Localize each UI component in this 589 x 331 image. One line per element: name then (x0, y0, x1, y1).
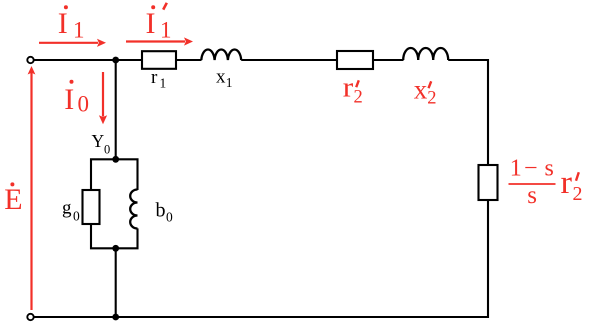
svg-text:I: I (146, 7, 156, 40)
label I1' (red) (146, 3, 172, 43)
svg-text:b: b (156, 199, 166, 221)
wire parallel-branch top rail (91, 159, 138, 190)
svg-text:s: s (527, 182, 537, 209)
svg-text:0: 0 (166, 210, 173, 225)
label I1 dot (red) (58, 5, 85, 42)
svg-text:0: 0 (104, 142, 110, 156)
susceptance b0 coil (130, 190, 137, 229)
node bottom of parallel branch (112, 245, 119, 252)
resistor r1 (142, 51, 176, 69)
label r2' (red) (343, 72, 363, 108)
svg-text:0: 0 (78, 92, 90, 117)
label b0 (156, 199, 174, 224)
wire parallel-branch bottom rail (91, 224, 138, 248)
wire right side below resistor to bottom-right corner (34, 200, 488, 317)
voltage arrow E (red, pointing up) (28, 66, 36, 310)
label I0 (red) (64, 80, 89, 117)
label g0 (62, 198, 80, 224)
current arrow I1' (red) (126, 37, 193, 45)
svg-text:E: E (4, 183, 22, 216)
svg-text:2: 2 (427, 89, 436, 109)
svg-text:I: I (58, 7, 68, 40)
wire x1 to r2' (241, 59, 337, 61)
wire top: terminal to r1 (34, 59, 142, 61)
terminal T2 bottom-left (27, 314, 33, 320)
label E dot (red) (4, 182, 22, 216)
current arrow I0 (red) (99, 72, 107, 124)
wire middle branch vertical (bottom) (115, 248, 117, 317)
svg-text:x: x (216, 67, 226, 88)
svg-text:1: 1 (226, 75, 233, 90)
svg-text:r: r (151, 67, 158, 88)
label x2' (red) (414, 74, 437, 108)
wire r2' to x2' (373, 59, 404, 61)
inductor x1 (201, 49, 241, 60)
svg-text:s: s (545, 156, 554, 182)
terminal T1 top-left (27, 57, 33, 63)
label (1-s)/s r2' (red) (509, 156, 583, 210)
resistor r2' (337, 51, 373, 69)
inductor x2' (403, 48, 448, 60)
wire middle branch vertical (top) (115, 60, 117, 159)
label Y0 (92, 131, 111, 156)
svg-text:x: x (414, 74, 428, 104)
svg-text:2: 2 (573, 183, 583, 205)
svg-text:g: g (62, 198, 72, 219)
wire x2' to top-right corner and down (448, 60, 488, 165)
svg-text:2: 2 (354, 88, 363, 108)
svg-text:1: 1 (160, 76, 167, 91)
conductance g0 box (83, 190, 100, 224)
label r1 (151, 67, 166, 91)
node junction top (middle branch tap) (112, 57, 119, 64)
wire r1 to x1 (176, 59, 202, 61)
current arrow I1 (red) (39, 39, 106, 47)
svg-text:1: 1 (160, 18, 172, 43)
resistor (1-s)/s r2' (479, 165, 498, 200)
svg-text:r: r (561, 165, 573, 201)
svg-text:1: 1 (510, 156, 522, 182)
svg-text:Y: Y (92, 131, 105, 151)
svg-text:1: 1 (73, 18, 85, 43)
svg-text:0: 0 (73, 209, 80, 224)
svg-text:I: I (64, 83, 74, 116)
label x1 (216, 67, 233, 91)
svg-text:−: − (524, 156, 538, 182)
node Y0 junction (112, 156, 119, 163)
node junction bottom wire (112, 314, 119, 321)
svg-text:r: r (343, 72, 354, 104)
